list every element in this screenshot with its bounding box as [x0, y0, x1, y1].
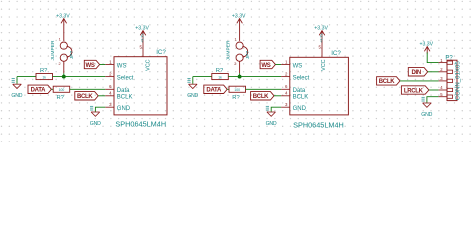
svg-text:P?: P? [445, 55, 453, 61]
wire [98, 95, 105, 97]
wire [400, 80, 439, 82]
wire [100, 64, 106, 66]
resistor R? 2b [229, 86, 246, 92]
pin 3 GND [281, 106, 290, 108]
power symbol GND 1b [91, 111, 100, 113]
pin 5 VCC [142, 32, 144, 57]
wire [17, 76, 36, 78]
pin 3 [439, 80, 447, 82]
svg-text:IC?: IC? [156, 49, 166, 56]
wire [16, 77, 18, 84]
wire [274, 95, 281, 97]
global label DIN [408, 68, 427, 76]
pin 4 BCLK [105, 95, 114, 97]
svg-text:1: 1 [59, 38, 61, 42]
svg-text:BCLK: BCLK [293, 95, 309, 101]
wire [246, 88, 282, 90]
svg-text:1k: 1k [218, 75, 222, 79]
svg-text:GND: GND [117, 106, 131, 112]
svg-text:CONN_01X05: CONN_01X05 [454, 61, 461, 101]
svg-text:+3.3V: +3.3V [56, 13, 70, 19]
svg-text:WS: WS [86, 63, 95, 69]
pin 3 GND [105, 106, 114, 108]
wire [228, 76, 281, 78]
global label BCLK 2 [251, 92, 274, 100]
svg-text:Select: Select [117, 75, 134, 81]
wire [63, 73, 65, 76]
svg-text:DATA: DATA [31, 88, 47, 94]
power symbol GND 1a [13, 83, 22, 85]
svg-text:GND: GND [266, 121, 277, 127]
svg-text:VCC: VCC [145, 59, 151, 70]
microphone block 2 [187, 13, 348, 129]
svg-text:IC?: IC? [331, 50, 341, 57]
svg-text:JUMPER: JUMPER [226, 40, 232, 61]
global label WS 1 [84, 60, 99, 68]
svg-text:1k: 1k [42, 75, 46, 79]
resistor R? 1b [53, 86, 69, 92]
svg-text:R?: R? [56, 95, 64, 101]
resistor R? 2a [212, 74, 229, 80]
svg-text:2: 2 [234, 62, 236, 66]
wire [192, 77, 194, 84]
svg-text:WS: WS [117, 63, 127, 69]
svg-text:100: 100 [59, 88, 65, 92]
pin 1 WS [105, 64, 114, 66]
svg-text:2: 2 [58, 62, 60, 66]
svg-text:BCLK: BCLK [77, 94, 93, 100]
svg-text:+3.3V: +3.3V [420, 41, 434, 47]
global label BCLK right [377, 77, 400, 85]
wire [193, 76, 212, 78]
power symbol GND P [423, 102, 432, 104]
wire [95, 107, 105, 112]
resistor R? 1a [36, 74, 53, 80]
microphone block 1 [11, 13, 167, 128]
connector P? CONN_01X05 [447, 60, 457, 100]
svg-text:LRCLK: LRCLK [404, 88, 424, 94]
svg-text:JUMPER: JUMPER [50, 40, 56, 61]
svg-text:GND: GND [11, 93, 22, 99]
svg-text:JP?: JP? [245, 50, 251, 59]
wire [70, 88, 106, 90]
svg-text:+3.3V: +3.3V [232, 13, 246, 19]
svg-text:GND: GND [421, 112, 432, 118]
pin 2 Select [281, 76, 290, 78]
svg-text:VCC: VCC [321, 59, 327, 70]
svg-text:R?: R? [40, 68, 48, 74]
global label WS 2 [260, 60, 275, 68]
global label BCLK 1 [75, 92, 98, 100]
svg-text:BCLK: BCLK [253, 94, 269, 100]
global label DATA 1 [28, 85, 51, 93]
svg-text:WS: WS [293, 63, 303, 69]
pin 5 [439, 96, 447, 98]
global label LRCLK [401, 86, 429, 94]
pin 6 Data [105, 88, 114, 90]
wire [429, 89, 439, 91]
wire [227, 88, 229, 90]
svg-text:JP?: JP? [69, 50, 75, 59]
svg-text:+3.3V: +3.3V [314, 25, 328, 31]
pin 2 Select [105, 76, 114, 78]
svg-text:R?: R? [216, 68, 224, 74]
svg-text:Data: Data [293, 88, 306, 94]
svg-text:R?: R? [232, 95, 240, 101]
svg-text:100: 100 [234, 88, 240, 92]
global label DATA 2 [204, 85, 227, 93]
wire [427, 97, 439, 103]
svg-text:Data: Data [117, 88, 130, 94]
svg-text:Select: Select [293, 75, 310, 81]
svg-text:GND: GND [187, 93, 198, 99]
power symbol GND 2a [189, 83, 198, 85]
power symbol GND 2b [267, 111, 276, 113]
wire [239, 73, 241, 76]
pin 5 VCC [321, 32, 323, 58]
wire [53, 76, 106, 78]
pin 1 [439, 62, 447, 64]
svg-text:SPH0645LM4H: SPH0645LM4H [293, 120, 344, 129]
IC U? SPH0645LM4H 2 [290, 57, 349, 115]
svg-text:SPH0645LM4H: SPH0645LM4H [115, 119, 166, 128]
wire [51, 88, 53, 90]
pin 2 [439, 71, 447, 73]
IC U? SPH0645LM4H 1 [114, 57, 167, 115]
wire [428, 71, 439, 73]
wire [427, 53, 438, 63]
pin 4 [439, 89, 447, 91]
svg-text:DATA: DATA [206, 88, 222, 94]
svg-text:GND: GND [293, 106, 307, 112]
svg-text:BCLK: BCLK [379, 79, 395, 85]
svg-text:DIN: DIN [411, 70, 420, 76]
pin 1 WS [281, 64, 290, 66]
pin 6 Data [281, 88, 290, 90]
svg-text:WS: WS [261, 63, 270, 69]
svg-text:BCLK: BCLK [117, 95, 133, 101]
svg-text:1: 1 [234, 38, 236, 42]
wire [275, 64, 281, 66]
svg-text:GND: GND [90, 121, 101, 127]
junction [62, 75, 66, 79]
wire [271, 107, 281, 112]
svg-text:+3.3V: +3.3V [135, 25, 149, 31]
pin 4 BCLK [281, 95, 290, 97]
junction [238, 75, 242, 79]
